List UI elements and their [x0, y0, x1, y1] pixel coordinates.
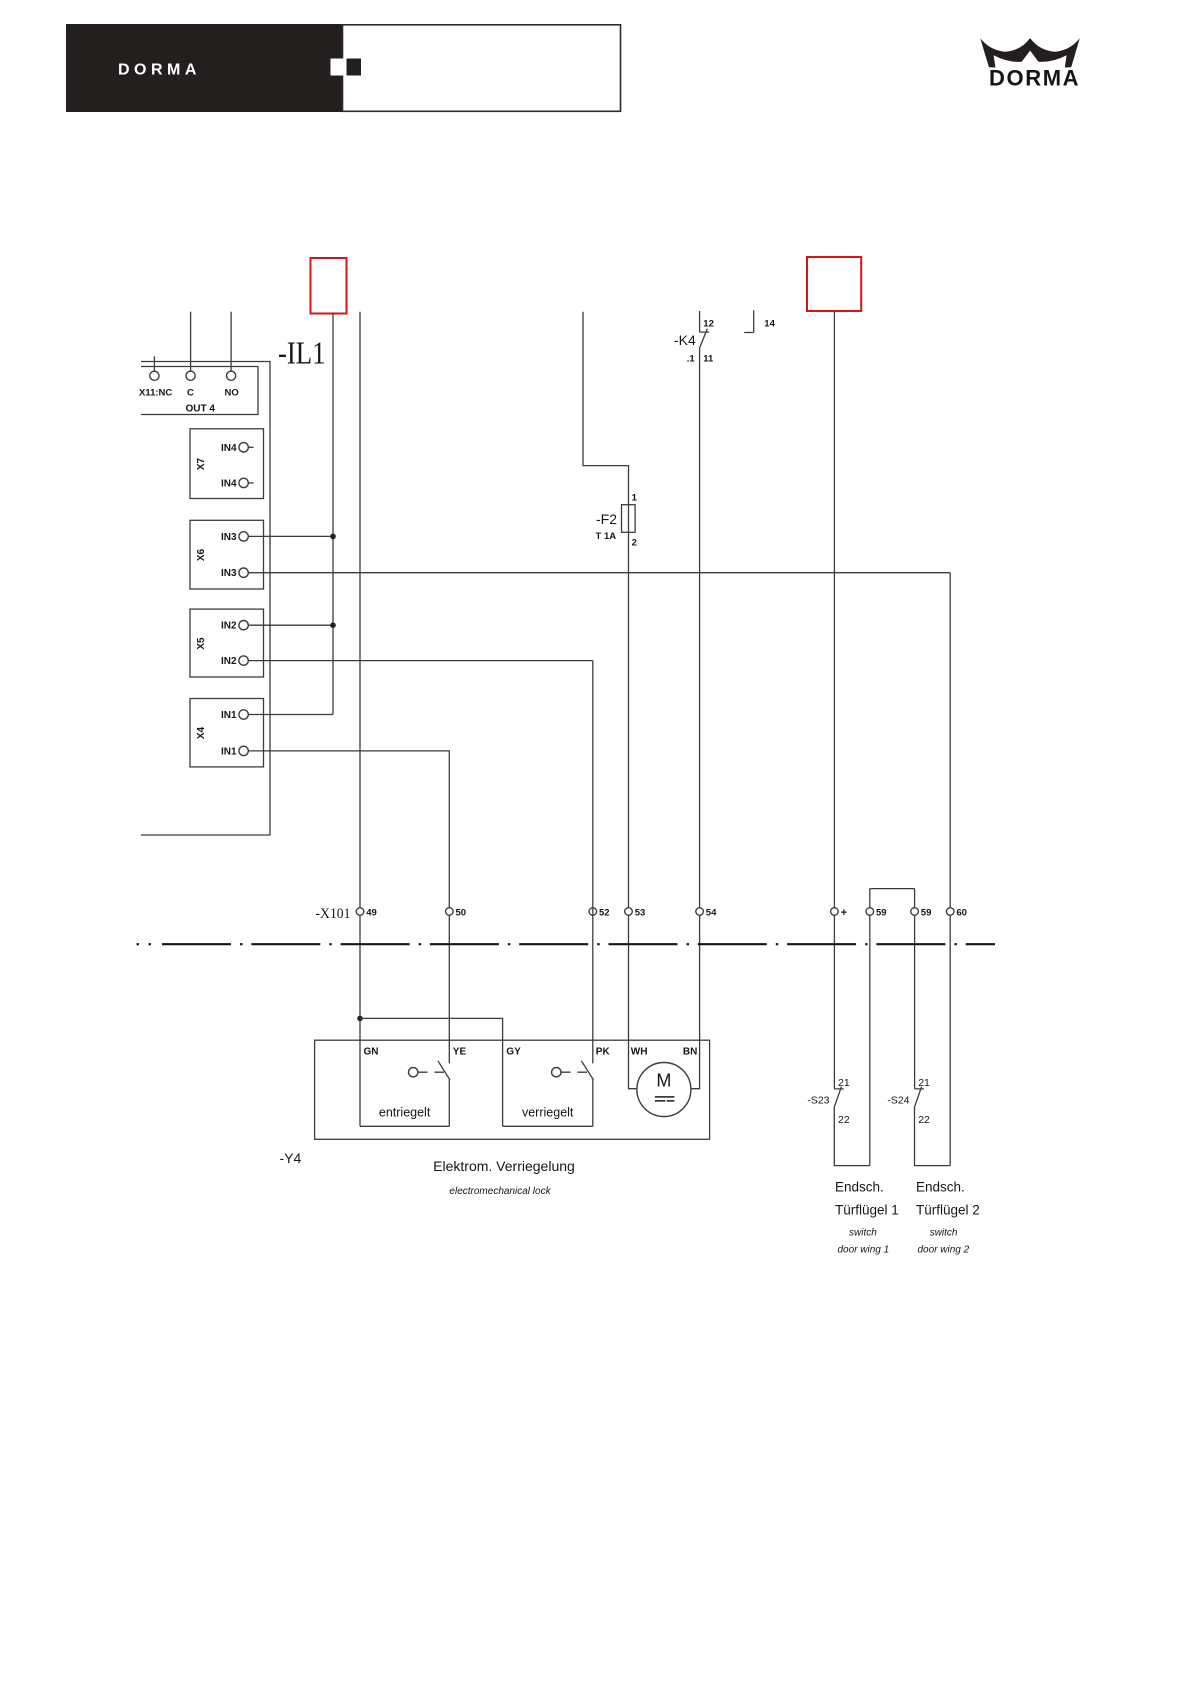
svg-text:IN4: IN4: [221, 443, 237, 454]
svg-text:1: 1: [632, 493, 638, 504]
wire 54 BN: [691, 347, 699, 1089]
svg-text:Türflügel 1: Türflügel 1: [835, 1203, 899, 1218]
motor M lock drive: [637, 1063, 691, 1117]
junction node GN-GY: [357, 1016, 363, 1022]
terminal bridge 59-59: [870, 888, 915, 890]
X6 pin IN3 bottom with wire to terminal 60: [248, 572, 950, 574]
PK wire lower segment: [592, 1080, 594, 1127]
svg-text:IN4: IN4: [221, 478, 237, 489]
svg-text:door wing 1: door wing 1: [838, 1245, 890, 1256]
svg-text:X4: X4: [196, 726, 207, 739]
svg-text:verriegelt: verriegelt: [522, 1106, 574, 1120]
terminal 50: [446, 908, 454, 916]
svg-text:49: 49: [366, 907, 377, 918]
svg-text:NO: NO: [225, 388, 239, 399]
svg-text:60: 60: [956, 907, 967, 918]
connector X7: [190, 429, 264, 499]
svg-text:OUT 4: OUT 4: [186, 404, 216, 415]
terminal 54: [696, 908, 704, 916]
svg-text:entriegelt: entriegelt: [379, 1106, 431, 1120]
X5 pin IN2 bottom with wire to terminal 52: [248, 660, 593, 662]
svg-text:C: C: [187, 388, 194, 399]
svg-text:-IL1: -IL1: [278, 335, 326, 371]
terminal 53: [625, 908, 633, 916]
svg-text:.1: .1: [687, 354, 696, 365]
switch actuator circle verriegelt: [552, 1068, 561, 1077]
terminal 49: [356, 908, 364, 916]
svg-text:T 1A: T 1A: [596, 531, 617, 542]
svg-text:11: 11: [703, 354, 714, 365]
OUT 4 relay output block: [141, 367, 258, 415]
switch actuator circle entriegelt: [409, 1068, 418, 1077]
terminal 59 first: [866, 908, 874, 916]
OUT4 terminal NO with wire stub: [230, 312, 232, 372]
svg-text:IN2: IN2: [221, 621, 237, 632]
header left black panel: [66, 24, 342, 112]
svg-text:-F2: -F2: [596, 511, 617, 527]
page reference box red right: [807, 257, 861, 311]
limit switch -S24 NC: [914, 1087, 924, 1108]
svg-text:X11:NC: X11:NC: [139, 388, 172, 399]
svg-text:2: 2: [632, 538, 637, 549]
controller -IL1 module outline: [141, 362, 270, 836]
connector X4: [190, 699, 264, 767]
svg-text:switch: switch: [930, 1228, 958, 1239]
X7 pin IN4 top: [239, 443, 248, 452]
svg-text:21: 21: [838, 1077, 850, 1089]
switch blade entriegelt on YE wire: [438, 1061, 450, 1080]
svg-text:door wing 2: door wing 2: [918, 1245, 970, 1256]
svg-text:-Y4: -Y4: [280, 1150, 302, 1166]
terminal 59 second: [911, 908, 919, 916]
DORMA logo crown: [980, 38, 1079, 67]
PK wire upper segment: [592, 661, 594, 1064]
svg-text:YE: YE: [453, 1047, 467, 1058]
svg-text:Elektrom. Verriegelung: Elektrom. Verriegelung: [433, 1158, 575, 1174]
YE wire lower segment: [448, 1080, 450, 1127]
svg-text:53: 53: [635, 907, 646, 918]
connector X6: [190, 520, 264, 589]
svg-text:-S23: -S23: [807, 1095, 829, 1107]
svg-text:22: 22: [918, 1114, 930, 1126]
svg-text:59: 59: [876, 907, 887, 918]
svg-text:IN3: IN3: [221, 568, 237, 579]
dividing line panel boundary: [162, 943, 995, 945]
svg-text:IN1: IN1: [221, 746, 237, 757]
switch blade verriegelt on PK wire: [581, 1061, 593, 1080]
header checker square white: [331, 59, 347, 76]
wire 49 GN vertical: [359, 312, 361, 1127]
svg-text:Endsch.: Endsch.: [916, 1180, 965, 1195]
DC symbol dashed bar: [655, 1100, 675, 1102]
svg-text:X6: X6: [196, 548, 207, 561]
actuator dashed link verriegelt: [561, 1071, 590, 1073]
terminal 52: [589, 908, 597, 916]
K4 unused contact 14: [744, 310, 754, 332]
svg-text:BN: BN: [683, 1047, 697, 1058]
svg-text:12: 12: [703, 319, 714, 330]
actuator dashed link entriegelt: [418, 1071, 446, 1073]
X4 pin IN1 bottom with wire to terminal 50: [248, 751, 449, 1064]
X4 pin IN1 top with wire to node: [248, 714, 333, 716]
svg-text:Türflügel 2: Türflügel 2: [916, 1203, 980, 1218]
svg-text:electromechanical lock: electromechanical lock: [449, 1186, 551, 1197]
X5 pin IN2 top with wire to node: [248, 624, 333, 626]
electromechanical lock -Y4 enclosure: [315, 1040, 710, 1139]
sub-box bottom entriegelt: [360, 1125, 449, 1127]
svg-text:PK: PK: [596, 1047, 611, 1058]
svg-text:59: 59: [921, 907, 932, 918]
limit switch -S23 NC: [834, 1087, 844, 1108]
svg-text:Endsch.: Endsch.: [835, 1180, 884, 1195]
input bus wire from reference box: [332, 314, 334, 715]
svg-text:21: 21: [918, 1077, 930, 1089]
svg-text:switch: switch: [849, 1228, 877, 1239]
wire below S23: [834, 1107, 870, 1166]
wire 59 right: [914, 889, 916, 1089]
wire 59 left: [869, 889, 871, 1166]
svg-text:X7: X7: [196, 457, 207, 470]
svg-text:-X101: -X101: [316, 906, 351, 922]
X6 pin IN3 top with wire to node: [248, 535, 333, 537]
wire 60: [949, 573, 951, 1166]
svg-text:DORMA: DORMA: [118, 62, 201, 79]
svg-text:M: M: [656, 1071, 671, 1091]
header title box: [343, 25, 621, 112]
svg-text:50: 50: [456, 907, 467, 918]
svg-text:14: 14: [764, 319, 775, 330]
svg-text:22: 22: [838, 1114, 850, 1126]
relay contact -K4 NC: [700, 311, 710, 347]
svg-text:-S24: -S24: [887, 1095, 909, 1107]
svg-text:IN1: IN1: [221, 710, 237, 721]
jumper wire to GY: [360, 1018, 503, 1126]
svg-text:GY: GY: [506, 1047, 521, 1058]
fuse -F2: [622, 505, 636, 533]
svg-text:GN: GN: [364, 1047, 379, 1058]
OUT4 terminal C with wire stub: [190, 312, 192, 372]
junction node IN2: [330, 622, 336, 628]
svg-text:-K4: -K4: [674, 332, 696, 348]
wire 53 WH with fuse: [583, 312, 637, 1089]
svg-text:IN2: IN2: [221, 656, 237, 667]
OUT4 terminal X11:NC: [153, 356, 155, 371]
page reference box red left: [311, 258, 347, 314]
connector X5: [190, 609, 264, 677]
dividing line panel boundary dots: [137, 943, 152, 945]
terminal plus: [831, 908, 839, 916]
X7 pin IN4 bottom: [239, 478, 248, 487]
svg-text:DORMA: DORMA: [989, 66, 1080, 91]
svg-text:X5: X5: [196, 637, 207, 650]
svg-text:52: 52: [599, 907, 610, 918]
svg-text:+: +: [841, 907, 847, 919]
header checker square black: [347, 59, 362, 76]
terminal 60: [946, 908, 954, 916]
junction node IN3: [330, 534, 336, 540]
DC symbol solid bar: [655, 1096, 675, 1098]
svg-text:IN3: IN3: [221, 532, 237, 543]
wire below S24: [915, 1107, 951, 1166]
svg-text:54: 54: [706, 907, 717, 918]
svg-text:WH: WH: [631, 1047, 648, 1058]
sub-box bottom verriegelt: [503, 1125, 593, 1127]
wire plus from reference box: [833, 311, 835, 1089]
